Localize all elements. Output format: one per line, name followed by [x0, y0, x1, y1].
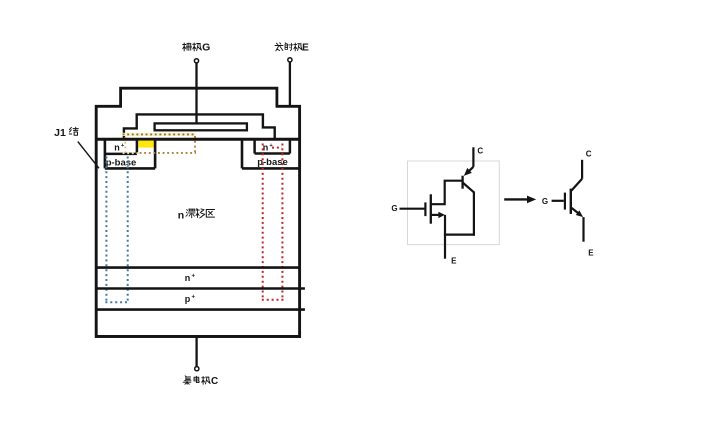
svg-text:C: C [477, 146, 483, 155]
right p-base well [242, 139, 301, 168]
pnp Q1 emitter arrowhead [464, 168, 472, 176]
label n+ right (dark red) [263, 143, 274, 153]
equivalence arrow [504, 198, 528, 200]
yellow channel region [138, 141, 154, 148]
equivalent circuit bounding box [408, 161, 500, 245]
svg-text:G: G [391, 204, 397, 213]
blue dotted electron path left [105, 157, 107, 303]
svg-text:C: C [211, 376, 218, 387]
svg-text:E: E [302, 43, 309, 54]
wire mosfet drain to pnp base [432, 181, 462, 206]
orange dotted channel box bottom (over n+ line, then on white) [123, 152, 139, 154]
mosfet gate lead wire [400, 208, 425, 210]
label n漂移区 (n drift region) [178, 209, 215, 222]
red dotted hole path right [281, 144, 283, 300]
svg-text:n: n [114, 143, 120, 153]
orange dotted channel box top [123, 133, 196, 135]
svg-text:n: n [185, 273, 191, 283]
label p+ substrate [185, 294, 196, 304]
label 栅极G (Gate G) [183, 42, 211, 54]
orange dotted channel box right [194, 136, 196, 153]
gate lead wire [195, 63, 197, 124]
label 集电极C (Collector C) [183, 376, 218, 387]
right n+ source region [255, 139, 290, 154]
bottom rail wire [444, 234, 475, 236]
collector terminal circle [195, 367, 199, 371]
igbt collector wire [581, 160, 583, 179]
svg-text:p-base: p-base [106, 158, 137, 169]
left p-base well [105, 139, 155, 168]
gate terminal circle [194, 59, 198, 63]
gate polysilicon [155, 123, 247, 130]
orange dotted channel box left [124, 137, 126, 152]
oxide cream strip [122, 133, 196, 136]
igbt collector diagonal [572, 179, 583, 191]
red dotted tick beside n+ [272, 147, 282, 149]
igbt emitter diagonal [571, 207, 579, 213]
svg-text:+: + [191, 274, 195, 280]
n+ buffer layer top line [95, 266, 301, 269]
label n+ buffer [185, 273, 196, 283]
left n+ source region [105, 139, 137, 154]
blue dotted electron path right [127, 157, 129, 303]
n+/p+ boundary line [95, 287, 305, 290]
red dotted path bottom [262, 299, 284, 301]
pnp Q1 base bar [461, 176, 463, 189]
svg-text:E: E [451, 257, 457, 266]
red dotted hole path left [262, 144, 264, 300]
gate oxide outline [124, 114, 275, 138]
mosfet source arrowhead [438, 212, 445, 218]
emitter terminal circle [288, 58, 292, 62]
label J1结 [54, 127, 78, 139]
pnp Q1 collector wire down [473, 192, 475, 236]
silicon top surface [95, 138, 301, 141]
mosfet source wire with arrow [432, 214, 440, 216]
bottom collector metal edge [95, 335, 301, 338]
p+ bottom line [95, 308, 305, 311]
svg-text:J1: J1 [54, 127, 66, 139]
pnp Q1 collector diagonal [463, 183, 474, 193]
pnp transistor Q1 emitter diagonal [466, 167, 473, 174]
mosfet source wire down [444, 215, 446, 235]
collector lead wire [195, 336, 197, 366]
J1 pointer line [78, 142, 99, 169]
label n+ left [114, 143, 125, 153]
emitter lead wire (equiv) [444, 235, 446, 259]
svg-text:+: + [191, 295, 195, 301]
svg-text:G: G [542, 197, 548, 206]
igbt gate bar [564, 193, 566, 210]
svg-text:n: n [178, 209, 184, 221]
svg-text:p: p [185, 294, 191, 304]
blue dotted path bottom [105, 301, 128, 303]
igbt emitter arrowhead [576, 210, 583, 217]
device body outline [96, 105, 299, 336]
igbt emitter wire [582, 217, 584, 242]
emitter metal outer top edges [95, 105, 301, 108]
svg-text:G: G [202, 42, 210, 54]
igbt main bar [570, 189, 572, 214]
emitter metal raised top [121, 88, 277, 107]
label 发射极E (Emitter E) [275, 43, 309, 54]
igbt gate lead wire [552, 200, 564, 202]
svg-text:C: C [586, 149, 592, 158]
collector lead wire (equiv) [472, 147, 474, 167]
svg-text:+: + [121, 143, 125, 149]
mosfet channel bar [430, 194, 432, 223]
mosfet gate bar [424, 202, 426, 216]
svg-text:E: E [588, 249, 594, 258]
emitter lead wire [289, 62, 291, 107]
